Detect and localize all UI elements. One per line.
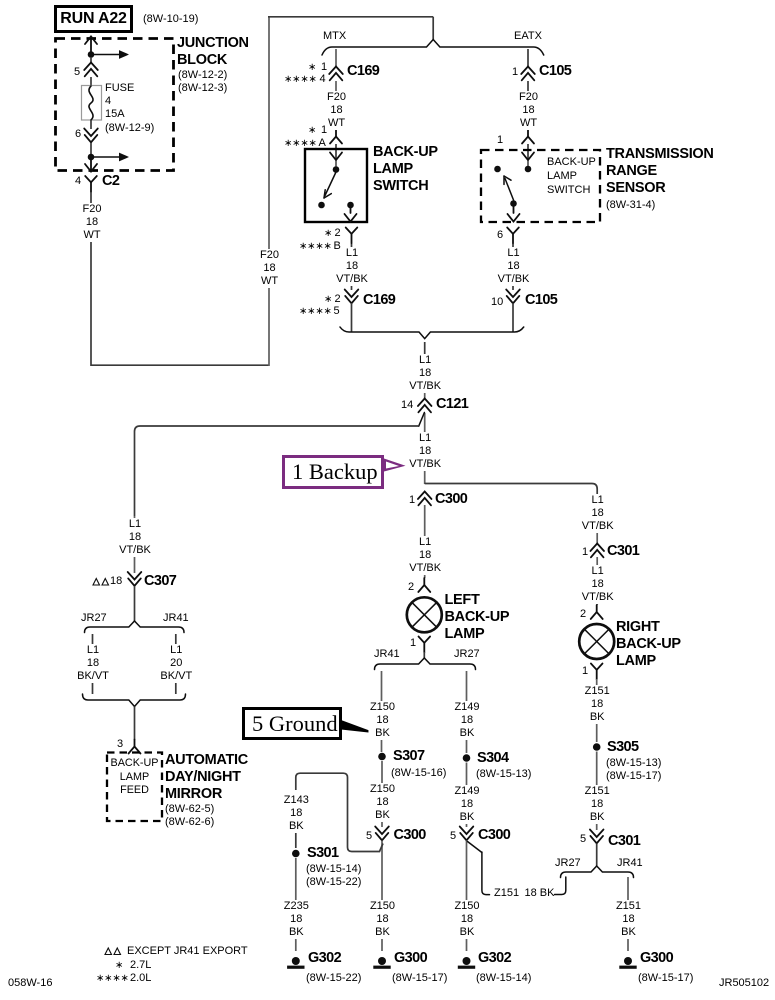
wire JR27 hook to Z151 label <box>555 877 566 895</box>
wire JR41 mirror branch <box>175 634 177 694</box>
wire F20 below C2 <box>90 192 92 366</box>
brace splitting C301 to JR27/JR41 <box>561 866 634 878</box>
triangle note marks at C307 <box>93 579 109 586</box>
node JR41 (mirror) <box>163 612 189 625</box>
wire pin6 to junction dot <box>90 143 92 157</box>
right lamp pin 1 terminal <box>591 664 603 680</box>
pin 4 at C169 <box>320 73 326 86</box>
right lamp pin 1 number <box>582 665 588 678</box>
wire Z150 C300 to G302 <box>466 841 468 952</box>
callout 1 Backup box <box>282 455 384 489</box>
left lamp pin 2 number <box>408 581 414 594</box>
references S301 <box>306 863 361 889</box>
connector C301 pin 1 number <box>582 546 588 559</box>
ground G302 name (right-center) <box>478 950 511 966</box>
wire label F20 18 WT (riser) <box>258 249 281 289</box>
mirror pin 3 number <box>117 738 123 751</box>
wire Z149 S304 to C300 <box>466 763 468 828</box>
ground G300 name (bottom-right) <box>640 950 673 966</box>
connector C121 pin 14 number <box>401 399 413 412</box>
pin 2 at B <box>335 227 341 240</box>
RUN A22 hot-at-run box <box>54 5 133 33</box>
wire Z143 dash above S301 <box>295 832 297 848</box>
pin 1 at A <box>321 124 327 137</box>
wire label Z150 18 BK (JR41 upper) <box>368 701 397 741</box>
wire Z151 S305 to C301 <box>596 752 598 831</box>
hot-feed arrow into RUN A22 box <box>85 37 97 53</box>
wire label L1 18 VT/BK (merged) <box>407 354 443 394</box>
TRS output arrow <box>508 207 520 222</box>
brace merging MTX/EATX wires <box>340 327 524 339</box>
connector C105 name (bottom) <box>525 292 557 308</box>
wire L1 C301 to right lamp <box>596 557 598 605</box>
pin 5 at C169 bottom <box>334 305 340 318</box>
mirror pin 3 male half <box>129 740 141 754</box>
wire into transmission range sensor <box>527 144 529 159</box>
wire label Z151 18 BK (to G300 right) <box>614 900 643 940</box>
back-up lamp feed label <box>111 757 159 798</box>
connector C2 pin 4 terminal <box>85 176 97 192</box>
transmission range sensor title <box>606 146 714 197</box>
wire label L1 18 VT/BK (to C307) <box>117 518 153 558</box>
wire L1 C300 to left lamp <box>424 505 426 578</box>
wire label Z149 18 BK (JR27 upper) <box>452 701 481 741</box>
sheet code JR505102 <box>719 977 769 990</box>
connector C105 (top) double chevron <box>521 67 535 81</box>
wire below C121 <box>424 413 426 484</box>
pin 1 number at TRS <box>497 134 503 147</box>
TRS entry contact dot <box>525 160 532 172</box>
reference (8W-15-16) <box>391 767 446 780</box>
splice S301 name <box>307 845 338 861</box>
connector C169 pin A male half <box>330 130 342 144</box>
wire JR27 mirror branch <box>92 634 94 694</box>
wire label Z151 18 BK (S305 to C301) <box>583 785 612 825</box>
legend except JR41 export <box>127 945 248 958</box>
switch contact dot right (MTX) <box>347 202 354 209</box>
wire label L1 18 VT/BK (MTX switch out) <box>334 247 370 287</box>
connector pin 5 double chevron <box>84 63 98 77</box>
junction-block bus junction dot (bottom) <box>88 154 95 161</box>
wire L1 below MTX switch <box>351 244 353 290</box>
wire Z150 S307 to C300 <box>381 761 383 827</box>
switch movable blade with arrow (MTX) <box>324 172 336 198</box>
pin 2 at C169 bottom <box>335 293 341 306</box>
wire F20 MTX <box>335 81 337 130</box>
node EATX <box>514 30 542 43</box>
connector C169 (top) double chevron <box>329 67 343 81</box>
ground G302 (right-center) <box>458 957 475 969</box>
wire C169 to merge brace <box>351 303 353 332</box>
connector C301 name (pin 1) <box>607 543 639 559</box>
wire label 18 BK (stub) <box>525 887 555 900</box>
wire label L1 18 VT/BK (to right lamp) <box>580 565 616 605</box>
reference (8W-15-17) center <box>392 972 447 985</box>
connector C121 name <box>436 396 468 412</box>
wire Z151 stub from C300 to label <box>468 842 490 895</box>
pin 1 at C169 <box>321 61 327 74</box>
wire to mirror pin 3 <box>134 707 136 741</box>
connector C300 name (right pin 5) <box>478 827 510 843</box>
connector pin B / 2 terminal below switch <box>346 228 358 244</box>
back-up lamp switch box (MTX) <box>305 149 367 222</box>
wire top bus <box>268 16 433 18</box>
connector C105 pin 1 number <box>512 66 518 79</box>
wire C301 to split brace <box>596 844 598 867</box>
connector C300 name (pin 1) <box>435 491 467 507</box>
references S305 <box>606 757 661 783</box>
connector C301 name (pin 5) <box>608 833 640 849</box>
splice S305 <box>593 743 601 751</box>
brace splitting bus to MTX and EATX <box>322 40 544 56</box>
connector C121 pin 14 double chevron <box>418 399 432 413</box>
wire L1 to C121 <box>424 354 426 399</box>
connector C300 name (left pin 5) <box>394 827 426 843</box>
connector C169 (bottom) pin 5 double chevron <box>345 290 359 304</box>
references mirror <box>165 803 214 829</box>
connector C2 name <box>102 173 119 189</box>
brace splitting to JR27/JR41 (mirror) <box>85 621 185 633</box>
splice S304 <box>463 754 471 762</box>
automatic day/night mirror title <box>165 752 248 803</box>
junction diagonal from C121 into left branch <box>419 413 425 427</box>
triangle note marks legend <box>105 948 121 955</box>
wire label L1 18 VT/BK (TRS out) <box>496 247 532 287</box>
reference (8W-15-14) <box>476 972 531 985</box>
connector C300 pin 5 double chevron (left) <box>375 827 389 841</box>
node MTX <box>323 30 346 43</box>
right lamp pin 2 male half <box>591 605 603 619</box>
node JR27 (mirror) <box>81 612 107 625</box>
note * at C169 bottom <box>324 293 332 306</box>
wire label L1 18 VT/BK (to left lamp) <box>407 536 443 576</box>
reference (8W-15-13) <box>476 768 531 781</box>
TRS lower contact dot <box>510 200 517 207</box>
connector C307 pin 18 double chevron <box>128 572 142 586</box>
wire L1 below TRS <box>512 244 514 290</box>
ground G302 name (bottom-left) <box>308 950 341 966</box>
back-up lamp switch title (MTX) <box>373 144 438 195</box>
splice S305 name <box>607 739 638 755</box>
connector C105 (bottom) pin 10 double chevron <box>506 290 520 304</box>
wire label F20 18 WT (EATX) <box>517 91 540 131</box>
note * at pin A <box>308 124 316 137</box>
TRS contact dot left <box>494 166 501 173</box>
wire bus drop to brace <box>432 17 434 40</box>
left back-up lamp <box>407 597 442 632</box>
ground G302 (bottom-left) <box>287 957 304 969</box>
wire label Z235 18 BK <box>282 900 311 940</box>
connector pin 6 terminal below TRS <box>507 228 519 244</box>
connector C300 pin 5 number (left) <box>366 830 372 843</box>
wire label Z143 18 BK (S301) <box>282 794 311 834</box>
wire label Z151 (stub) <box>494 887 519 900</box>
ground G300 (center) <box>373 957 390 969</box>
legend 2.0L <box>130 972 151 985</box>
wire Z150 JR41 branch upper <box>381 671 383 752</box>
callout pointer (5 Ground) <box>341 720 378 734</box>
fuse label <box>105 82 154 135</box>
wire stub below merge brace <box>424 342 426 354</box>
left back-up lamp title <box>445 592 510 643</box>
node JR27 (C301) <box>555 857 581 870</box>
wire C105 to merge brace <box>512 303 514 332</box>
TRS movable blade with arrow <box>504 176 514 200</box>
brace merging into mirror feed <box>83 694 186 707</box>
connector C300 pin 1 number <box>409 494 415 507</box>
wire label L1 18 VT/BK (to C301) <box>580 494 616 534</box>
wire F20 EATX <box>527 81 529 130</box>
right back-up lamp <box>579 624 614 659</box>
splice S304 name <box>477 750 508 766</box>
wire label Z150 18 BK (to G300) <box>368 900 397 940</box>
wire riser F20 up to top bus <box>268 17 270 366</box>
connector C301 pin 5 double chevron <box>590 830 604 844</box>
connector C2 pin 4 number <box>75 175 81 188</box>
reference (8W-10-19) <box>143 13 198 26</box>
junction-block branch arrow (top) <box>91 50 129 59</box>
wire label L1 18 BK/VT (JR27) <box>75 644 111 684</box>
splice S307 name <box>393 748 424 764</box>
pin 6 number below TRS <box>497 229 503 242</box>
wire label F20 18 WT (MTX) <box>325 91 348 131</box>
switch common contact dot (MTX) <box>333 160 340 173</box>
left lamp pin 1 terminal <box>419 637 431 653</box>
connector C307 name <box>144 573 176 589</box>
wire label Z150 18 BK (to G302) <box>452 900 481 940</box>
reference (8W-31-4) <box>606 199 655 212</box>
wire label Z149 18 BK (JR27 lower) <box>452 785 481 825</box>
splice S301 <box>292 850 300 858</box>
transmission range sensor box (dashed) <box>481 150 600 222</box>
wire Z149 JR27 branch upper <box>466 671 468 753</box>
pin 6 label <box>75 128 81 141</box>
wire label Z150 18 BK (JR41 lower) <box>368 783 397 823</box>
connector C105 name (top) <box>539 63 571 79</box>
right lamp pin 2 number <box>580 608 586 621</box>
splice S307 <box>378 753 386 761</box>
reference (8W-15-17) right <box>638 972 693 985</box>
wire branch to right lamp <box>425 484 598 497</box>
wire branch to automatic mirror (horizontal) <box>135 426 419 516</box>
wire MTX brace to C169 <box>335 49 337 67</box>
switch output arrow (MTX) <box>345 208 357 222</box>
junction block title <box>177 35 249 69</box>
connector C300 pin 5 double chevron (right) <box>460 827 474 841</box>
node JR41 (C301) <box>617 857 643 870</box>
sheet number 058W-16 <box>8 977 52 990</box>
wire Z143 loop from S301 to C300 joint <box>296 773 383 851</box>
wire fuse bottom to pin 6 <box>90 120 92 129</box>
connector C301 pin 5 number <box>580 833 586 846</box>
back-up lamp switch label (TRS) <box>547 155 596 197</box>
wire chevron to fuse top <box>90 77 92 86</box>
connector C300 pin 1 double chevron <box>418 492 432 506</box>
connector C169 name (top) <box>347 63 379 79</box>
legend 2.7L <box>130 959 151 972</box>
wire into back-up lamp switch <box>335 144 337 159</box>
switch contact dot left (MTX) <box>318 202 325 209</box>
connector C300 pin 5 number (right) <box>450 830 456 843</box>
pin B letter <box>334 240 341 253</box>
wire Z150 C300 to G300 <box>381 841 383 952</box>
right back-up lamp title <box>616 619 681 670</box>
wire Z235 S301 to G302 <box>295 858 297 951</box>
wire label Z151 18 BK (lamp to S305) <box>583 685 612 725</box>
left lamp pin 2 male half <box>418 578 430 592</box>
junction-block internal bus junction dot (top) <box>88 51 95 58</box>
connector pin 6 double chevron <box>84 129 98 143</box>
pin 5 label <box>74 66 80 79</box>
wire fuse pin 5 <box>90 57 92 63</box>
callout pointer (1 Backup) <box>384 459 406 472</box>
node JR41 (left lamp) <box>374 648 400 661</box>
back-up lamp feed box (dashed) <box>107 753 162 822</box>
note * at C169 <box>308 61 316 74</box>
wire L1 to C301 <box>596 496 598 544</box>
reference (8W-15-22) <box>306 972 361 985</box>
wire label L1 20 BK/VT (JR41) <box>158 644 194 684</box>
brace splitting to JR41/JR27 <box>375 658 476 670</box>
arrow into TRS switch <box>522 153 534 161</box>
fuse F4 body <box>82 86 102 121</box>
connector C105 pin 1 male half <box>522 130 534 144</box>
wire label F20 18 WT (below C2) <box>81 203 104 243</box>
junction block dashed border <box>56 39 174 171</box>
wire horizontal run to right riser <box>91 364 269 366</box>
left lamp pin 1 number <box>410 637 416 650</box>
wire C307 to split brace <box>134 586 136 621</box>
ground G300 (bottom-right) <box>619 957 636 969</box>
wire Z151 right lamp to S305 <box>596 679 598 742</box>
node JR27 (left lamp) <box>454 648 480 661</box>
wire label L1 18 VT/BK (below C121) <box>407 432 443 472</box>
note triangles 18 at C307 <box>110 575 122 588</box>
wire EATX brace to C105 <box>527 49 529 67</box>
pin A letter <box>319 137 326 150</box>
ground G300 name (center) <box>394 950 427 966</box>
callout 5 Ground box <box>242 707 342 740</box>
wire left lamp to split brace <box>423 652 425 659</box>
connector C301 pin 1 double chevron <box>590 544 604 558</box>
connector C105 pin 10 number <box>491 296 503 309</box>
connector C169 name (bottom) <box>363 292 395 308</box>
arrow into MTX back-up lamp switch <box>330 153 342 161</box>
legend * mark <box>115 959 123 972</box>
wire Z151 JR41 branch to G300 <box>627 877 629 951</box>
note * at pin B <box>324 227 332 240</box>
junction-block branch arrow (bottom) <box>91 153 129 162</box>
exit arrow crossing junction block border <box>85 160 97 172</box>
junction block refs <box>178 69 227 95</box>
wire L1 to C307 <box>134 516 136 573</box>
